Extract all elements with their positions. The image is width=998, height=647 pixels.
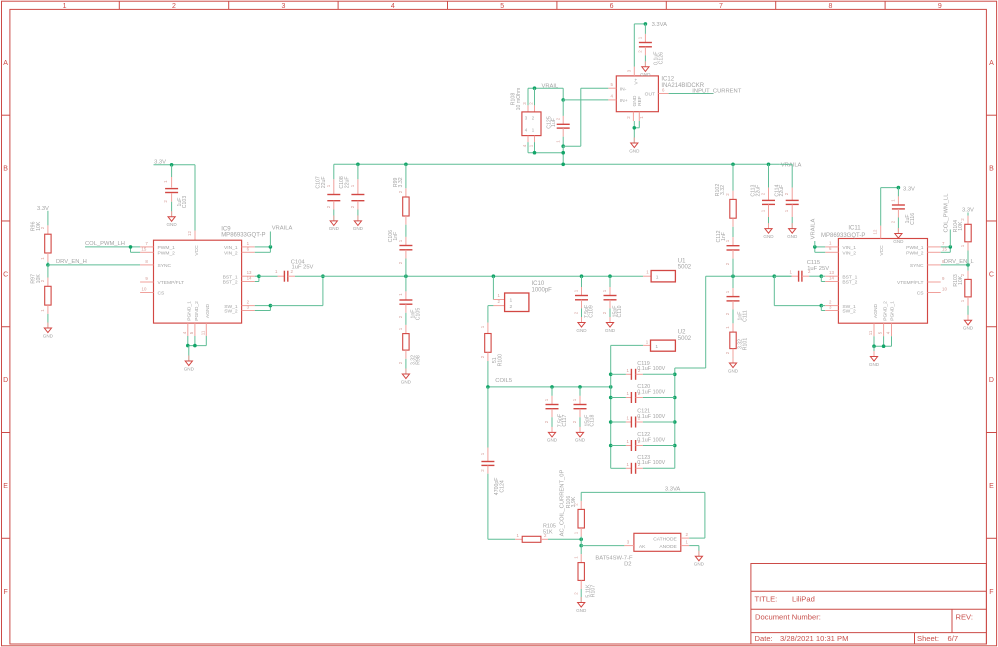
- current sense amplifier IC12 INA214BIDCKR: [608, 67, 704, 121]
- svg-text:2: 2: [574, 311, 579, 314]
- wire VIN_1/VIN_2 junction IC11: [813, 245, 825, 252]
- capacitor C120 0.1uF 100V: [611, 384, 675, 403]
- wire VIN_1/VIN_2 junction: [255, 245, 272, 252]
- svg-text:C: C: [989, 271, 994, 278]
- svg-text:2: 2: [350, 205, 355, 208]
- svg-text:3.9K: 3.9K: [571, 496, 577, 507]
- svg-text:1: 1: [275, 269, 278, 274]
- wire VCC pin 12: [187, 165, 195, 240]
- svg-text:PWM_1: PWM_1: [906, 245, 924, 251]
- svg-text:3.32: 3.32: [398, 177, 404, 187]
- svg-text:2: 2: [725, 351, 730, 354]
- svg-text:13: 13: [247, 270, 252, 275]
- wire SW to IC10 pin 1: [492, 276, 494, 299]
- wire cap bank left rail: [610, 345, 612, 468]
- supply 3.3V (VCC rail IC11): [903, 187, 915, 193]
- capacitor C114 22uF: [774, 164, 798, 228]
- svg-text:COIL5: COIL5: [495, 378, 512, 384]
- svg-text:BAT54SW-7-F: BAT54SW-7-F: [595, 555, 633, 561]
- svg-text:1: 1: [247, 241, 250, 246]
- wire PGND/AGND to ground IC11: [872, 336, 891, 356]
- svg-text:C111: C111: [742, 310, 748, 322]
- svg-text:1uF 25V: 1uF 25V: [292, 264, 314, 270]
- svg-text:5: 5: [878, 331, 883, 334]
- ground below C108: [353, 215, 364, 231]
- supply 3.3V (right divider): [962, 207, 974, 213]
- wire D2 anode to ground: [689, 546, 699, 557]
- shunt resistor R108 10 mOhm: [511, 88, 564, 155]
- svg-text:R98: R98: [416, 355, 422, 365]
- op-amp-style power stage IC11 MP86933GQT-P: [821, 226, 947, 337]
- svg-text:1: 1: [890, 199, 895, 202]
- svg-text:2: 2: [172, 3, 176, 10]
- svg-text:IC12: IC12: [661, 77, 674, 83]
- svg-text:1: 1: [40, 257, 45, 260]
- resistor R106 3.9K: [566, 492, 585, 539]
- svg-text:12: 12: [187, 231, 192, 236]
- svg-text:1: 1: [627, 391, 630, 396]
- svg-text:6: 6: [610, 3, 614, 10]
- svg-text:IN-: IN-: [620, 86, 627, 92]
- wire PGND/AGND to ground: [186, 336, 206, 361]
- svg-text:INPUT_CURRENT: INPUT_CURRENT: [692, 89, 741, 95]
- svg-text:9: 9: [942, 276, 945, 281]
- svg-text:12: 12: [873, 229, 878, 234]
- ground below C110: [605, 317, 616, 333]
- svg-text:C109: C109: [589, 305, 595, 318]
- svg-text:4: 4: [391, 3, 395, 10]
- wire BST_1/BST_2 junction: [255, 274, 261, 281]
- capacitor C107 22uF: [316, 164, 341, 221]
- svg-text:4: 4: [611, 94, 614, 99]
- ground below R103: [963, 315, 974, 331]
- svg-text:10: 10: [142, 287, 147, 292]
- svg-text:REV:: REV:: [956, 613, 973, 622]
- wire IN- to shunt: [563, 88, 608, 146]
- resistor R99 3.32: [393, 163, 409, 225]
- svg-text:PWM_2: PWM_2: [158, 250, 176, 256]
- svg-text:GND: GND: [728, 368, 739, 373]
- capacitor C121 0.1uF 100V: [611, 409, 675, 428]
- svg-text:C116: C116: [910, 213, 916, 225]
- capacitor C123 0.1uF 100V: [611, 455, 675, 474]
- wire right SW net: [706, 275, 792, 277]
- svg-text:C103: C103: [182, 196, 188, 209]
- resistor R104 10K: [953, 213, 971, 265]
- svg-text:A: A: [989, 60, 994, 67]
- svg-text:5002: 5002: [678, 265, 692, 271]
- junction left rail y=445.5: [609, 444, 613, 448]
- ground below C107: [329, 215, 340, 231]
- svg-text:14: 14: [829, 275, 834, 280]
- svg-text:5002: 5002: [678, 336, 692, 342]
- wire 3.3V to VCC of IC11: [881, 186, 901, 226]
- svg-text:AC_COIL_CURRENT_0P: AC_COIL_CURRENT_0P: [560, 470, 566, 537]
- svg-text:D2: D2: [624, 562, 631, 568]
- svg-text:1: 1: [574, 289, 579, 292]
- svg-text:1uF 25V: 1uF 25V: [807, 266, 829, 272]
- svg-text:VIN_2: VIN_2: [842, 250, 856, 256]
- svg-text:Date:: Date:: [755, 634, 773, 643]
- svg-text:22uF: 22uF: [756, 185, 762, 197]
- svg-text:2: 2: [529, 102, 534, 105]
- svg-text:VRAIL: VRAIL: [542, 84, 560, 90]
- net label AC_COIL_CURRENT_0P: [560, 470, 566, 537]
- supply 3.3V (VCC rail IC9): [154, 160, 166, 166]
- svg-text:TITLE:: TITLE:: [755, 595, 778, 604]
- svg-text:GND: GND: [869, 362, 880, 367]
- svg-text:OUT: OUT: [645, 92, 655, 98]
- net label COL_PWM_LL: [943, 193, 950, 247]
- svg-text:1: 1: [784, 209, 789, 212]
- wire BST junction IC11: [820, 274, 826, 281]
- svg-text:3.3VA: 3.3VA: [652, 22, 667, 28]
- capacitor C125 1uF: [546, 88, 569, 166]
- svg-text:1: 1: [627, 416, 630, 421]
- capacitor C106 1nF: [388, 225, 412, 277]
- svg-text:2: 2: [890, 220, 895, 223]
- capacitor C115 1uF 25V: [774, 260, 829, 282]
- wire PWM_1/PWM_2 junction IC11: [941, 245, 952, 252]
- svg-text:E: E: [989, 483, 994, 490]
- capacitor C118 15pF: [572, 387, 596, 433]
- svg-text:10K: 10K: [36, 221, 42, 231]
- svg-text:REF: REF: [637, 96, 643, 106]
- capacitor C117 7.5pF: [544, 387, 568, 433]
- svg-text:1: 1: [556, 140, 561, 143]
- svg-text:A: A: [3, 60, 8, 67]
- ground below C103: [166, 211, 177, 227]
- svg-text:1: 1: [829, 241, 832, 246]
- resistor R105 51K: [488, 523, 581, 542]
- svg-text:0.1uF 100V: 0.1uF 100V: [637, 437, 665, 443]
- svg-text:C: C: [3, 271, 8, 278]
- svg-text:1: 1: [517, 533, 520, 538]
- junction COIL5 / cap bank rail: [609, 385, 613, 389]
- svg-text:GND: GND: [787, 234, 798, 239]
- title block: [751, 564, 987, 645]
- svg-text:2: 2: [510, 304, 513, 310]
- svg-text:CATHODE: CATHODE: [653, 537, 677, 543]
- svg-text:MP86933GQT-P: MP86933GQT-P: [821, 233, 865, 239]
- svg-text:3.32: 3.32: [720, 185, 726, 195]
- svg-text:GND: GND: [605, 328, 616, 333]
- svg-text:1nF: 1nF: [721, 232, 727, 241]
- ground below C126: [640, 61, 651, 77]
- svg-text:GND: GND: [184, 366, 195, 371]
- wire IC10 pin 2 to R100: [488, 306, 494, 323]
- svg-text:10 mOhm: 10 mOhm: [516, 88, 522, 111]
- svg-text:10K: 10K: [958, 221, 964, 231]
- svg-text:GND: GND: [166, 222, 177, 227]
- svg-text:1: 1: [544, 398, 549, 401]
- capacitor C110 15pF: [602, 276, 623, 322]
- svg-text:D: D: [3, 377, 8, 384]
- svg-text:VRAILA: VRAILA: [272, 225, 293, 231]
- junction right rail y=445.5: [673, 444, 677, 448]
- wire / net label INPUT_CURRENT: [669, 89, 742, 95]
- svg-text:1: 1: [573, 556, 578, 559]
- junction SW / SW pins IC11: [773, 274, 777, 278]
- svg-text:VCC: VCC: [194, 245, 200, 256]
- svg-text:VIN_1: VIN_1: [842, 245, 856, 251]
- svg-text:2: 2: [626, 116, 631, 119]
- svg-text:PGND_2: PGND_2: [882, 301, 888, 321]
- svg-text:2: 2: [398, 261, 403, 264]
- svg-text:10K: 10K: [958, 275, 964, 285]
- test point U1 5002: [643, 258, 692, 282]
- svg-text:IN+: IN+: [620, 98, 628, 104]
- wire / net label COIL5: [486, 378, 611, 389]
- svg-text:1: 1: [646, 339, 649, 344]
- junction right rail y=397.5: [673, 396, 677, 400]
- svg-text:MP86933GQT-P: MP86933GQT-P: [221, 233, 265, 239]
- ground below C109: [576, 317, 587, 333]
- svg-text:2: 2: [725, 312, 730, 315]
- svg-text:Sheet:: Sheet:: [917, 634, 939, 643]
- svg-text:CS: CS: [917, 291, 925, 297]
- svg-text:22uF: 22uF: [345, 176, 351, 188]
- junction right rail y=422: [673, 420, 677, 424]
- svg-text:VRAILA: VRAILA: [811, 219, 817, 240]
- ground below IC9: [184, 356, 195, 372]
- svg-text:1: 1: [572, 398, 577, 401]
- junction left rail y=422: [609, 420, 613, 424]
- svg-text:6/7: 6/7: [948, 634, 959, 643]
- svg-text:SW_2: SW_2: [224, 309, 238, 315]
- wire left SW net: [323, 275, 643, 277]
- svg-text:1: 1: [960, 299, 965, 302]
- svg-text:U2: U2: [678, 330, 686, 336]
- svg-text:BST_1: BST_1: [223, 274, 238, 280]
- ground below R107: [576, 597, 587, 613]
- svg-text:8: 8: [145, 259, 148, 264]
- svg-text:11: 11: [200, 330, 205, 335]
- junction right rail y=374.3: [673, 373, 677, 377]
- svg-text:C126: C126: [659, 52, 665, 65]
- wire SW node to main line: [270, 274, 324, 305]
- supply 3.3VA: [652, 22, 667, 28]
- svg-text:GND: GND: [963, 326, 974, 331]
- svg-text:PGND_2: PGND_2: [194, 301, 200, 321]
- ground below IC12: [629, 138, 640, 154]
- svg-text:1: 1: [398, 293, 403, 296]
- svg-text:F: F: [3, 589, 7, 596]
- svg-text:VIN_1: VIN_1: [224, 245, 238, 251]
- svg-text:1000pF: 1000pF: [532, 287, 553, 293]
- svg-text:2: 2: [326, 205, 331, 208]
- svg-text:3: 3: [627, 539, 630, 544]
- wire cap bank right rail: [674, 374, 676, 468]
- svg-text:1: 1: [398, 327, 403, 330]
- capacitor C104 1uF 25V: [259, 259, 323, 281]
- net label VRAILA at IC11 VIN: [811, 219, 817, 247]
- svg-text:0.1uF 100V: 0.1uF 100V: [637, 460, 665, 466]
- svg-text:LiliPad: LiliPad: [792, 595, 815, 604]
- svg-text:3.3VA: 3.3VA: [665, 487, 680, 493]
- svg-text:4: 4: [182, 331, 187, 334]
- wire VRAILA rail with net label: [334, 162, 802, 168]
- svg-text:1: 1: [573, 531, 578, 534]
- junction R105/R106: [579, 538, 583, 542]
- svg-text:1: 1: [761, 209, 766, 212]
- svg-text:R100: R100: [498, 354, 504, 367]
- resistor R101 3.32: [725, 323, 748, 363]
- svg-text:PWM_2: PWM_2: [906, 250, 924, 256]
- svg-text:22uF: 22uF: [779, 185, 785, 197]
- svg-text:10K: 10K: [36, 274, 42, 284]
- svg-text:GND: GND: [893, 239, 904, 244]
- ground below C118: [575, 427, 586, 443]
- svg-text:R101: R101: [742, 338, 748, 351]
- svg-text:BST_2: BST_2: [842, 280, 857, 286]
- resistor R98 3.32: [398, 325, 422, 374]
- svg-text:GND: GND: [575, 438, 586, 443]
- svg-text:GND: GND: [694, 562, 705, 567]
- svg-text:ANODE: ANODE: [659, 544, 677, 550]
- svg-text:GND: GND: [576, 328, 587, 333]
- svg-text:1: 1: [725, 326, 730, 329]
- svg-text:2: 2: [480, 355, 485, 358]
- svg-text:1: 1: [627, 368, 630, 373]
- wire IN+ to VRAIL: [563, 99, 608, 101]
- svg-text:3: 3: [829, 304, 832, 309]
- svg-text:10: 10: [942, 287, 947, 292]
- svg-text:14: 14: [247, 276, 252, 281]
- svg-text:2: 2: [638, 50, 643, 53]
- svg-text:2: 2: [686, 532, 689, 537]
- svg-text:GND: GND: [401, 379, 412, 384]
- resistor R102 3.32: [715, 163, 736, 227]
- junction AK node: [579, 539, 583, 547]
- svg-text:13: 13: [829, 270, 834, 275]
- svg-text:PGND_1: PGND_1: [890, 301, 896, 321]
- junction left rail y=397.5: [609, 396, 613, 400]
- svg-text:1: 1: [627, 439, 630, 444]
- svg-text:CS: CS: [158, 291, 166, 297]
- wire GND/REF of IC12: [633, 121, 640, 143]
- wire / net label DRV_EN_H to SYNC: [48, 259, 140, 265]
- ground below C114: [787, 223, 798, 239]
- capacitor C112 1nF: [716, 227, 739, 276]
- capacitor C126 0.1uF: [638, 24, 665, 67]
- svg-text:C110: C110: [617, 305, 623, 317]
- svg-text:3.3V: 3.3V: [962, 207, 974, 213]
- svg-text:3: 3: [627, 69, 632, 72]
- wire / net label COL_PWM_LH to PWM pins: [85, 241, 140, 252]
- svg-text:0.1uF 100V: 0.1uF 100V: [637, 366, 665, 372]
- capacitor C116 1uF: [890, 188, 915, 234]
- svg-text:1: 1: [655, 344, 658, 350]
- svg-text:SYNC: SYNC: [910, 263, 924, 269]
- svg-text:AGND: AGND: [205, 303, 211, 318]
- ground below R98: [401, 369, 412, 385]
- junction SW / C109: [580, 274, 584, 278]
- svg-text:F: F: [989, 589, 993, 596]
- svg-text:PWM_1: PWM_1: [158, 245, 176, 251]
- svg-text:1: 1: [480, 325, 485, 328]
- svg-text:2: 2: [544, 420, 549, 423]
- svg-text:IC10: IC10: [532, 281, 545, 287]
- junction SW / IC10: [492, 274, 496, 278]
- svg-text:1nF: 1nF: [393, 232, 399, 241]
- svg-text:1: 1: [725, 290, 730, 293]
- svg-text:7: 7: [942, 241, 945, 246]
- junction left rail y=374.3: [609, 373, 613, 377]
- svg-text:4: 4: [522, 144, 527, 147]
- svg-text:2: 2: [163, 200, 168, 203]
- op-amp-style power stage IC9 MP86933GQT-P: [140, 226, 265, 336]
- svg-text:1: 1: [480, 452, 485, 455]
- svg-text:1: 1: [686, 539, 689, 544]
- wire SW_1/SW_2 junction: [255, 304, 272, 311]
- svg-text:0.1uF 100V: 0.1uF 100V: [637, 414, 665, 420]
- resistor R96 10K: [30, 211, 51, 265]
- svg-text:VIN_2: VIN_2: [224, 250, 238, 256]
- svg-text:3/28/2021 10:31 PM: 3/28/2021 10:31 PM: [780, 634, 848, 643]
- svg-text:C117: C117: [562, 414, 568, 426]
- ground below IC11: [869, 351, 880, 367]
- svg-text:GND: GND: [632, 95, 638, 106]
- resistor R107 5.11K: [573, 546, 596, 603]
- svg-text:2: 2: [572, 420, 577, 423]
- svg-text:GND: GND: [547, 438, 558, 443]
- svg-text:AGND: AGND: [873, 303, 879, 318]
- svg-text:V+: V+: [634, 78, 640, 84]
- svg-text:1: 1: [638, 36, 643, 39]
- svg-text:C115: C115: [807, 260, 820, 266]
- svg-text:GND: GND: [353, 226, 364, 231]
- junction COIL5 / C117: [550, 385, 554, 389]
- svg-text:2: 2: [398, 361, 403, 364]
- svg-text:51K: 51K: [543, 529, 553, 535]
- svg-text:C124: C124: [499, 480, 505, 493]
- svg-text:VTEMP/FLT: VTEMP/FLT: [158, 280, 185, 286]
- svg-text:9: 9: [145, 276, 148, 281]
- resistor R97 10K: [30, 265, 51, 328]
- wire / supply 3.3VA (detector): [581, 487, 705, 493]
- net label VRAILA at IC9 VIN: [270, 225, 292, 247]
- svg-text:B: B: [3, 166, 8, 173]
- svg-text:2: 2: [573, 592, 578, 595]
- svg-text:1: 1: [646, 270, 649, 275]
- ground below D2: [694, 551, 705, 567]
- svg-text:COL_PWM_LH: COL_PWM_LH: [85, 241, 125, 247]
- svg-text:11: 11: [868, 330, 873, 335]
- resistor R103 10K: [953, 265, 971, 320]
- ground below C116: [893, 228, 904, 244]
- svg-text:2: 2: [398, 190, 403, 193]
- svg-text:SW_2: SW_2: [842, 309, 856, 315]
- ground below R101: [728, 358, 739, 374]
- svg-text:15: 15: [141, 246, 146, 251]
- svg-text:AK: AK: [639, 544, 646, 550]
- svg-text:1: 1: [529, 144, 534, 147]
- svg-text:1: 1: [960, 244, 965, 247]
- svg-text:1: 1: [790, 270, 793, 275]
- wire / net label DRV_EN_L: [941, 259, 975, 267]
- capacitor C113 22uF: [751, 163, 775, 229]
- svg-text:IC9: IC9: [221, 226, 231, 232]
- resistor R100 51: [480, 323, 504, 387]
- svg-text:0.1uF 100V: 0.1uF 100V: [637, 389, 665, 395]
- junction SW / C110: [608, 274, 612, 278]
- svg-text:3: 3: [281, 3, 285, 10]
- svg-text:GND: GND: [629, 148, 640, 153]
- capacitor C119 0.1uF 100V: [611, 361, 675, 380]
- svg-text:1uF: 1uF: [551, 118, 557, 127]
- svg-text:2: 2: [725, 262, 730, 265]
